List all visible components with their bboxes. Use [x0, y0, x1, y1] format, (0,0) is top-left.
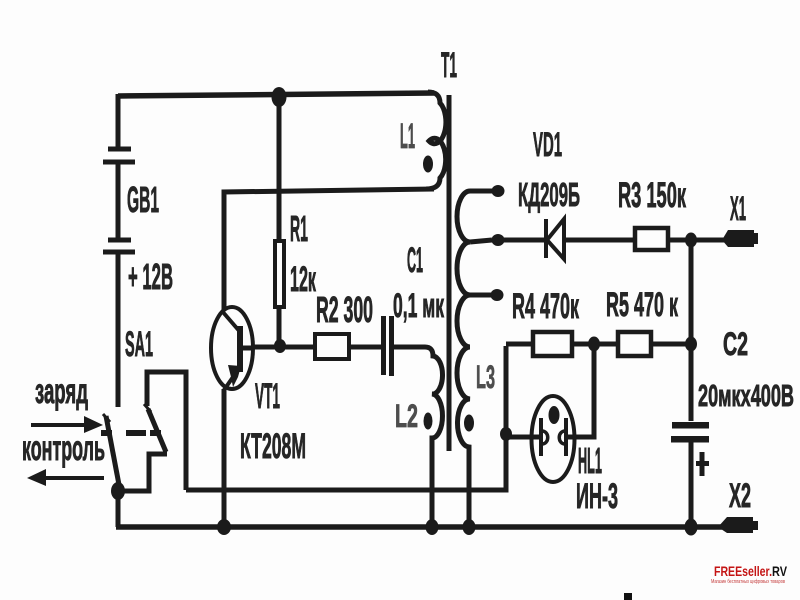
winding L3 upper [457, 191, 492, 295]
svg-text:заряд: заряд [35, 372, 88, 411]
wire R4 left [506, 342, 531, 347]
phase dot L1 [423, 156, 433, 173]
svg-text:VD1: VD1 [533, 126, 562, 164]
svg-text:0,1 мк: 0,1 мк [393, 287, 445, 325]
wire switch to bottom rail [116, 489, 121, 527]
svg-text:L2: L2 [395, 398, 418, 434]
resistor R2 [315, 334, 349, 359]
node L3 tap1 [492, 185, 505, 197]
arrow charge [31, 416, 103, 433]
svg-text:С1: С1 [407, 241, 423, 280]
node R5 right [685, 337, 697, 352]
wire R5 to right rail [653, 342, 691, 347]
winding L3 lower [457, 295, 470, 527]
svg-text:L1: L1 [400, 117, 415, 156]
wire node to R5 [594, 342, 616, 347]
capacitor C2 [671, 422, 709, 476]
node lamp left [500, 427, 512, 441]
node emitter bottom [217, 519, 231, 535]
svg-text:С2: С2 [723, 326, 748, 362]
svg-text:КД209Б: КД209Б [518, 176, 580, 213]
svg-text:R1: R1 [290, 208, 308, 249]
artifact mark bottom edge [624, 593, 632, 600]
winding L2 [425, 347, 443, 527]
svg-text:SA1: SA1 [125, 325, 153, 364]
wire top rail [118, 93, 434, 96]
wire lamp right to node [566, 344, 594, 437]
svg-text:12к: 12к [290, 260, 316, 299]
terminal X2 [718, 517, 758, 533]
wire C1 to L2 [394, 345, 425, 350]
svg-text:FREEseller.: FREEseller. [714, 563, 772, 579]
wire control staircase [147, 372, 186, 490]
wire R3 to X1 [670, 238, 727, 243]
node base [274, 339, 286, 353]
wire battery to switch contact [116, 252, 121, 407]
svg-text:GB1: GB1 [127, 179, 159, 220]
wire R4 to node [574, 342, 594, 347]
neon lamp HL1 [506, 396, 575, 482]
transformer T1 core [447, 95, 452, 451]
wire control to lamp [186, 346, 506, 490]
svg-text:R3 150к: R3 150к [618, 176, 686, 215]
svg-text:20мкх400В: 20мкх400В [698, 378, 794, 413]
svg-text:контроль: контроль [22, 429, 105, 468]
wire collector to L1 [224, 189, 434, 310]
node X1 [685, 233, 697, 248]
svg-text:L3: L3 [476, 359, 495, 395]
svg-text:VT1: VT1 [255, 377, 280, 416]
svg-text:Т1: Т1 [441, 46, 457, 85]
winding L1 [426, 92, 446, 189]
node C2 bottom [685, 519, 698, 536]
wire emitter to bottom [222, 389, 227, 527]
node L3 tap2 [492, 234, 505, 246]
node R4 R5 [588, 337, 600, 352]
diode VD1 [546, 219, 564, 259]
node battery switch junction [111, 482, 125, 500]
arrow control [27, 469, 104, 486]
svg-text:R4 470к: R4 470к [512, 287, 579, 326]
resistor R3 [635, 228, 668, 250]
wire VD1 to R3 [564, 238, 633, 243]
svg-text:КТ208М: КТ208М [240, 427, 306, 466]
node L3 bottom [463, 519, 476, 535]
logo FREEseller.RV [711, 563, 788, 585]
svg-text:HL1: HL1 [578, 440, 602, 481]
node L3 tap3 [491, 289, 504, 301]
switch SA1 [101, 404, 167, 491]
svg-text:RV: RV [772, 563, 788, 579]
transistor VT1 [211, 307, 254, 390]
svg-text:ИН-3: ИН-3 [576, 477, 618, 516]
terminal X1 [722, 230, 758, 247]
battery GB1 [103, 94, 135, 252]
resistor R5 [618, 332, 651, 356]
phase dot L3 [464, 415, 474, 432]
wire right rail upper [689, 240, 694, 421]
phase dot L2 [424, 413, 433, 430]
svg-text:R2 300: R2 300 [316, 289, 373, 330]
svg-text:Магазин бесплатных цифровых то: Магазин бесплатных цифровых товаров [711, 579, 785, 585]
node R1 top [272, 87, 287, 107]
wire tap2 to VD1 [498, 238, 545, 243]
wire bottom rail [116, 524, 722, 530]
svg-text:+ 12В: + 12В [128, 256, 173, 297]
svg-text:X2: X2 [729, 477, 751, 515]
wire C2 to bottom [689, 440, 694, 527]
svg-text:X1: X1 [730, 190, 746, 228]
resistor R4 [533, 332, 572, 356]
resistor R1 [275, 97, 284, 346]
svg-text:R5 470 к: R5 470 к [606, 286, 679, 324]
wire R2 to C1 [351, 345, 381, 350]
capacitor C1 [381, 316, 394, 376]
wire base to R2 [254, 345, 313, 350]
node L2 bottom [426, 519, 439, 535]
